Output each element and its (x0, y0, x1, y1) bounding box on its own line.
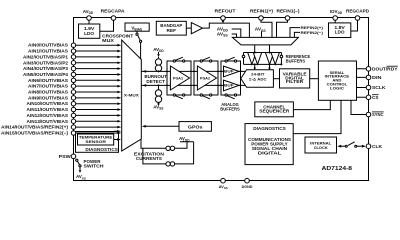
svg-text:Σ-Δ ADC: Σ-Δ ADC (249, 76, 267, 81)
BUF bypass switch top (225, 57, 237, 62)
pin circles bottom (221, 178, 250, 183)
svg-text:AIN1/IOUT/VBIAS: AIN1/IOUT/VBIAS (28, 49, 68, 54)
wire GPOs to mux with arrow (146, 125, 179, 127)
PGA2 amplifier triangle (197, 66, 216, 90)
svg-text:BUF: BUF (224, 83, 234, 88)
svg-text:AIN4/IOUT/VBIAS/P3: AIN4/IOUT/VBIAS/P3 (23, 66, 69, 71)
svg-text:BUF: BUF (224, 69, 234, 74)
svg-text:AVSS: AVSS (219, 184, 228, 190)
pin AIN8 (71, 90, 75, 94)
svg-text:CLOCK: CLOCK (314, 145, 328, 150)
svg-text:AIN7/IOUT/VBIAS: AIN7/IOUT/VBIAS (28, 84, 68, 89)
wire REGCAPD to 1.8V LDO (351, 20, 358, 31)
wire AIN6 to mux (76, 79, 118, 81)
wire AIN14 to mux (76, 126, 118, 128)
svg-text:MUX: MUX (102, 38, 114, 43)
wire AVSS input to reference mux (232, 34, 237, 37)
pin AIN12 (71, 113, 75, 117)
svg-text:X-MUX: X-MUX (124, 93, 139, 98)
wire REFIN2(+) to reference mux (290, 28, 300, 38)
PGA2 bypass switch bottom (200, 94, 212, 99)
temperature sensor diagnostics outer box (76, 132, 119, 153)
ADC block 24-bit sigma-delta (241, 70, 274, 88)
reference mux trapezoid (232, 37, 298, 45)
arrows temp sensor to mux (114, 131, 117, 139)
svg-text:DOUT/RDY: DOUT/RDY (372, 66, 398, 71)
wire AIN3 to mux (76, 62, 118, 64)
svg-text:DIAGNOSTICS: DIAGNOSTICS (253, 126, 286, 131)
wire bandgap buffer to REFOUT and reference mux (203, 23, 250, 37)
svg-text:REFIN1(−): REFIN1(−) (277, 9, 301, 14)
svg-text:PGA2: PGA2 (200, 76, 211, 81)
pin AIN13 (71, 119, 75, 123)
wire REFIN1(-) to reference mux (277, 20, 288, 37)
pin AIN3 (71, 61, 75, 65)
wires serial interface to pins (357, 69, 367, 98)
svg-text:DGND: DGND (242, 184, 253, 189)
wire serial to SYNC pin (351, 100, 366, 114)
wire AIN13 to mux (76, 120, 118, 122)
svg-text:REF: REF (167, 28, 177, 33)
reference VBIAS block (125, 23, 149, 31)
wire REFIN2(-) to reference mux (294, 32, 300, 37)
wire filter to serial interface (310, 78, 319, 80)
svg-text:DIAGNOSTICS: DIAGNOSTICS (85, 147, 118, 152)
excitation current source 2 (143, 142, 194, 166)
reference buffer bypass switch left (243, 53, 245, 56)
excitation current source 1 (141, 139, 187, 150)
svg-text:AIN12/IOUT/VBIAS: AIN12/IOUT/VBIAS (27, 113, 69, 118)
svg-text:AIN14/IOUT/VBIAS/REFIN2(+): AIN14/IOUT/VBIAS/REFIN2(+) (1, 125, 69, 130)
svg-text:AVDD: AVDD (153, 47, 164, 53)
svg-text:AIN15/IOUT/VBIAS/REFIN2(−): AIN15/IOUT/VBIAS/REFIN2(−) (1, 130, 69, 135)
arrow burnout wires into mux (142, 70, 146, 73)
svg-text:CLK: CLK (372, 144, 382, 149)
svg-text:CS: CS (372, 95, 379, 100)
svg-text:AVSS: AVSS (255, 27, 267, 33)
channel sequencer block (255, 102, 294, 117)
reference buffers rails and outputs (255, 45, 270, 53)
wire AIN8 to mux (76, 91, 118, 93)
svg-text:CURRENTS: CURRENTS (136, 156, 162, 161)
svg-text:PGA1: PGA1 (173, 76, 184, 81)
svg-text:AIN2/IOUT/VBIAS/P1: AIN2/IOUT/VBIAS/P1 (23, 54, 69, 59)
wire AIN9 to mux (76, 97, 118, 99)
wire AIN12 to mux (76, 114, 118, 116)
switch VBIAS to crosspoint mux (136, 31, 142, 59)
PGA2 bypass switch top (200, 57, 212, 62)
PGA1 stage box (167, 61, 191, 95)
PGA1 amplifier triangle (170, 66, 189, 90)
svg-text:BUFFERS: BUFFERS (286, 59, 306, 64)
wire IOVDD to 1.8V LDO (334, 20, 336, 23)
junction dots burnout (158, 70, 160, 86)
svg-text:REFIN2(−): REFIN2(−) (301, 30, 324, 35)
pin AIN2 (71, 55, 75, 59)
svg-text:SCLK: SCLK (372, 85, 386, 90)
wire AIN15 to mux (76, 132, 118, 134)
svg-text:AIN0/IOUT/VBIAS: AIN0/IOUT/VBIAS (28, 43, 68, 48)
bandgap reference block (156, 21, 186, 35)
pin circles top (87, 16, 360, 21)
svg-text:IOVDD: IOVDD (330, 9, 343, 15)
IC boundary (74, 18, 369, 181)
wire REGCAPA to 1.9V LDO (100, 20, 114, 31)
svg-text:BUFFERS: BUFFERS (220, 106, 240, 111)
svg-text:REFIN1(+): REFIN1(+) (250, 9, 274, 14)
svg-text:PSW: PSW (59, 154, 72, 159)
svg-text:REGCAPD: REGCAPD (346, 9, 369, 14)
pin circles right (366, 67, 371, 149)
svg-text:AIN5/IOUT/VBIAS/P4: AIN5/IOUT/VBIAS/P4 (23, 72, 69, 77)
pin AIN9 (71, 96, 75, 100)
svg-text:AVSS: AVSS (76, 174, 86, 180)
pin AIN7 (71, 84, 75, 88)
wire AIN10 to mux (76, 103, 118, 105)
svg-text:FILTER: FILTER (286, 79, 303, 84)
pin AIN5 (71, 72, 75, 76)
svg-text:DIGITAL: DIGITAL (258, 150, 282, 155)
svg-text:AIN8/IOUT/VBIAS: AIN8/IOUT/VBIAS (28, 90, 68, 95)
PGA1 bypass switch bottom (173, 94, 185, 99)
svg-text:AIN3/IOUT/VBIAS/P2: AIN3/IOUT/VBIAS/P2 (23, 60, 69, 65)
diagnostics block (245, 124, 293, 165)
svg-text:AVDD: AVDD (83, 9, 94, 15)
text labels layer (1, 9, 398, 191)
svg-text:AIN13/IOUT/VBIAS: AIN13/IOUT/VBIAS (27, 119, 69, 124)
reference buffer pair 1 (248, 53, 256, 65)
pin AIN6 (71, 78, 75, 82)
svg-text:LDO: LDO (335, 30, 346, 35)
wire AIN4 to mux (76, 68, 118, 70)
pin AIN1 (71, 49, 75, 53)
wire AIN0 to mux (76, 44, 118, 46)
pin AIN15 (71, 131, 75, 135)
excitation currents AVDD rail (180, 141, 194, 142)
pin AIN0 (71, 43, 75, 47)
pin AIN11 (71, 107, 75, 111)
regulator 1.9V LDO (79, 24, 100, 38)
internal clock block (305, 137, 337, 153)
wire AIN5 to mux (76, 73, 118, 75)
GPOs block (179, 122, 211, 132)
wire REFIN1(+) to reference mux (261, 20, 272, 37)
burnout detect current source bottom with AVSS arrow (155, 85, 161, 105)
svg-text:DIN: DIN (372, 75, 382, 80)
serial interface block (318, 61, 356, 100)
PGA1 bypass switch top (173, 57, 185, 62)
pin circle PSW (71, 154, 76, 159)
pin AIN4 (71, 66, 75, 70)
temperature sensor box (78, 134, 114, 145)
svg-text:SENSOR: SENSOR (85, 139, 106, 144)
wire channel sequencer to serial interface (293, 100, 330, 109)
svg-text:LDO: LDO (84, 31, 95, 36)
svg-text:LOGIC: LOGIC (330, 85, 344, 90)
BUF stage box (221, 61, 241, 95)
pin AIN14 (71, 125, 75, 129)
junction dots reference rails (254, 52, 283, 70)
svg-text:SYNC: SYNC (372, 112, 384, 117)
wire AVSS mid input to reference mux (261, 31, 263, 37)
svg-text:GPOs: GPOs (188, 125, 203, 130)
svg-text:AIN11/IOUT/VBIAS: AIN11/IOUT/VBIAS (27, 107, 69, 112)
wire AVDD input to reference mux (232, 29, 241, 37)
svg-text:REGCAPA: REGCAPA (101, 9, 125, 14)
wire AIN7 to mux (76, 85, 118, 87)
regulator 1.8V LDO (329, 23, 351, 38)
buffer amp after bandgap (186, 23, 202, 34)
power switch PSW (76, 159, 82, 173)
digital filter block (280, 69, 310, 88)
BUF bottom triangle (224, 80, 240, 91)
crosspoint mux X-MUX (122, 40, 142, 151)
wire diagnostics to serial interface (293, 100, 341, 133)
wire ADC to filter (273, 78, 279, 80)
junction dots analog chain (166, 71, 241, 87)
switch internal clock to CLK pin (337, 142, 366, 148)
svg-text:AIN9/IOUT/VBIAS: AIN9/IOUT/VBIAS (28, 95, 68, 100)
wire AIN11 to mux (76, 109, 118, 111)
burnout detect current source top with AVDD arrow (155, 52, 161, 72)
wire REFOUT pin arrow (222, 19, 224, 22)
wire AIN1 to mux (76, 50, 118, 52)
svg-text:REFOUT: REFOUT (215, 9, 237, 14)
svg-text:AVSS: AVSS (153, 104, 163, 110)
svg-text:AIN10/IOUT/VBIAS: AIN10/IOUT/VBIAS (27, 101, 69, 106)
analog signal wires mux to ADC (141, 71, 245, 85)
svg-text:DETECT: DETECT (146, 79, 165, 84)
svg-text:AD7124-8: AD7124-8 (322, 166, 353, 172)
wire AVDD to 1.9V LDO (88, 20, 90, 24)
svg-text:SWITCH: SWITCH (84, 163, 104, 168)
wire AIN2 to mux (76, 56, 118, 58)
reference buffer bypass switch right (280, 53, 282, 56)
pin AIN10 (71, 102, 75, 106)
reference buffer pair 2 (265, 53, 273, 65)
BUF bypass switch bottom (225, 94, 237, 99)
svg-text:SEQUENCER: SEQUENCER (259, 109, 290, 114)
BUF top triangle (224, 66, 240, 77)
svg-text:AIN6/IOUT/VBIAS: AIN6/IOUT/VBIAS (28, 78, 68, 83)
PGA2 stage box (194, 61, 218, 95)
